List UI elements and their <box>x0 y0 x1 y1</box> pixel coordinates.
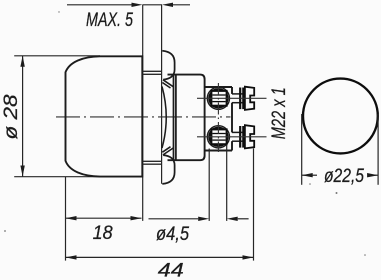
svg-text:44: 44 <box>158 261 184 280</box>
svg-text:ø4,5: ø4,5 <box>156 224 189 245</box>
svg-text:ø 28: ø 28 <box>1 94 22 139</box>
svg-text:M22 x 1: M22 x 1 <box>269 87 290 139</box>
svg-text:ø22,5: ø22,5 <box>324 166 364 187</box>
svg-text:MAX. 5: MAX. 5 <box>86 10 133 31</box>
svg-text:18: 18 <box>93 223 113 244</box>
